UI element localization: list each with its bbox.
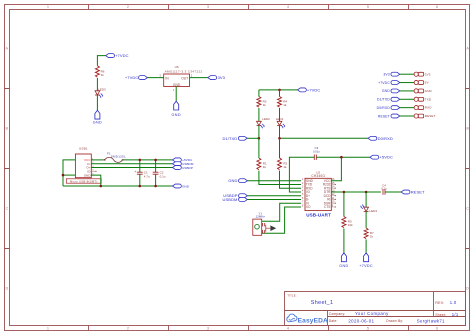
wire [247,137,259,139]
svg-text:6: 6 [436,5,438,9]
svg-text:2: 2 [127,327,129,331]
wire [247,198,301,200]
wire [63,174,75,176]
junction [139,159,142,162]
capacitor C1 [134,160,150,186]
resistor R2 [278,158,288,170]
svg-text:CTS: CTS [324,205,330,209]
LED LED3 [95,87,106,98]
svg-text:1k: 1k [283,103,287,107]
junction [278,137,281,140]
svg-text:Company:: Company: [329,312,346,316]
net flag D0/RXD [368,136,393,141]
svg-text:1k: 1k [283,165,287,169]
net flag 3V3 [208,75,226,80]
wire DTR/RESET [331,191,381,193]
wire [280,137,369,139]
svg-text:D0/RXD: D0/RXD [377,106,391,110]
net flag GND [382,89,400,93]
svg-text:GND: GND [382,89,390,93]
svg-text:3V3: 3V3 [383,73,389,77]
svg-text:LED1: LED1 [276,117,284,121]
wire [316,156,370,158]
power flag +7VDC (LED3 branch) [106,53,129,58]
svg-text:D0/RXD: D0/RXD [378,136,393,141]
svg-text:C3: C3 [315,146,319,150]
wire [385,191,401,193]
net flag D1/TXD [377,97,400,101]
svg-text:GND: GND [173,83,181,87]
svg-text:OUT: OUT [181,76,188,80]
IC U2 CH340G [302,170,336,210]
svg-text:REV:: REV: [435,301,444,305]
USB1 pin stubs and numbers [91,158,96,175]
wire XI [262,203,301,221]
svg-text:RXD: RXD [425,106,432,110]
resistor R1 [257,158,267,170]
wire (shell to gnd rail) [63,160,75,186]
svg-text:Micro USB-B(SMT): Micro USB-B(SMT) [70,179,97,183]
net flag USBDP [173,166,193,170]
svg-text:1.0: 1.0 [450,300,457,305]
svg-text:4.7u: 4.7u [144,174,150,178]
svg-text:4: 4 [287,327,289,331]
junction [278,89,281,92]
svg-text:10k: 10k [348,223,353,227]
svg-text:USB1: USB1 [79,146,88,150]
wire [96,78,98,91]
wire to TXD [259,171,301,185]
svg-text:3: 3 [207,5,209,9]
capacitor C2 [153,160,166,186]
ground GND [339,253,348,268]
wire [365,192,367,207]
svg-text:GND: GND [84,173,92,177]
junction [154,185,157,188]
fuse F1 SMD125L [104,151,126,162]
svg-text:0.01u: 0.01u [313,149,320,153]
connector USB1 [75,146,91,177]
svg-text:3: 3 [207,327,209,331]
svg-text:TXD: TXD [425,97,432,101]
svg-text:+5VDC: +5VDC [380,155,394,160]
junction [258,137,261,140]
net flag GND [228,178,247,183]
resistor R6 [95,66,104,77]
wire GND pin [91,175,101,186]
junction [365,191,368,194]
svg-text:SergHawk71: SergHawk71 [417,318,445,323]
pin 3V3 [414,72,431,76]
svg-text:1: 1 [47,327,49,331]
wire VCC [331,157,341,181]
svg-text:GND: GND [93,121,102,125]
wire D+ [91,167,172,169]
svg-text:+: + [134,170,136,174]
label Micro USB-B(SMT) [66,179,101,184]
capacitor C3 [313,146,320,160]
wire [258,90,260,97]
net flag 3V3 [383,72,399,76]
wire [400,73,414,75]
wire [279,108,281,121]
net flag +5VDC [370,155,393,160]
wire [343,229,345,253]
wire [175,87,177,102]
pin GND [414,89,432,93]
wire [96,95,98,110]
wire [247,180,301,182]
wire [247,195,301,197]
svg-text:0.1u: 0.1u [160,174,166,178]
svg-text:LED4: LED4 [370,209,378,213]
wire [190,77,208,79]
svg-text:+7VDC: +7VDC [125,75,139,80]
wire [400,82,414,84]
svg-text:Date:: Date: [329,319,338,323]
wire VCC to fuse [91,159,104,161]
svg-text:GND: GND [339,264,348,268]
svg-text:6: 6 [436,327,438,331]
resistor R7 [364,228,374,239]
svg-text:2: 2 [127,5,129,9]
wire XO [262,207,301,233]
net flag GND [173,184,190,188]
wire [97,56,105,66]
gnd rail wire [63,185,173,187]
junction [340,156,343,159]
ground arrow [270,225,276,231]
svg-text:LED2: LED2 [262,117,270,121]
svg-text:+7VDC: +7VDC [115,53,129,58]
svg-text:+7VDC: +7VDC [307,87,321,92]
power flag +7VDC [298,87,321,92]
wire [258,126,260,139]
net flag D1/TXD [222,136,247,141]
net flag D0/RXD [377,106,400,110]
svg-text:3V3: 3V3 [425,72,431,76]
svg-text:1k: 1k [101,73,105,77]
wire V3 [289,157,314,192]
resistor R3 [257,97,267,108]
wire D- [91,163,172,165]
svg-text:USB-UART: USB-UART [306,212,331,217]
svg-text:USBDM: USBDM [223,197,238,202]
wire 5V net [123,159,173,161]
wire [343,192,345,217]
svg-text:GND: GND [171,113,180,117]
svg-text:AMS1117-3.3 C347222: AMS1117-3.3 C347222 [165,69,203,73]
svg-text:Sheet:: Sheet: [435,313,446,317]
ground GND [93,110,102,124]
power port +7VDC [359,253,373,268]
svg-text:5: 5 [367,5,369,9]
LED LED4 [360,204,377,213]
svg-text:TITLE:: TITLE: [287,294,297,298]
wire [400,90,414,92]
svg-text:SMD125L: SMD125L [111,155,126,159]
wire [400,115,414,117]
crystal Y1 12MHz [253,211,271,235]
svg-text:1k: 1k [263,165,267,169]
pin TXD [414,97,432,101]
wire +7VDC rail [259,89,298,91]
regulator U6 AMS1117-3.3 [164,65,203,87]
svg-text:USBDP: USBDP [182,166,193,170]
svg-text:+7VDC: +7VDC [378,81,390,85]
junction [62,174,65,177]
wire [279,126,281,139]
wire [279,138,281,158]
wire [147,77,163,79]
wire [365,211,367,228]
svg-text:5V: 5V [425,81,429,85]
wire [365,240,367,253]
svg-text:RESET: RESET [411,189,425,194]
wire [258,108,260,121]
svg-text:D1/TXD: D1/TXD [222,136,237,141]
svg-text:RESET: RESET [425,114,436,118]
pin RESET [414,114,435,118]
net flag RESET [401,189,425,194]
svg-text:+7VDC: +7VDC [359,264,373,268]
junction [139,185,142,188]
LED LED1 [276,117,285,128]
svg-text:GND: GND [425,89,433,93]
svg-text:U6: U6 [175,65,179,69]
svg-text:Drawn By:: Drawn By: [386,319,403,323]
svg-text:GND: GND [228,178,237,183]
svg-text:Your Company: Your Company [355,311,389,316]
power flag +7VDC (regulator input) [125,75,148,80]
junction [343,191,346,194]
svg-text:4: 4 [287,5,289,9]
svg-text:XO: XO [306,205,311,209]
svg-text:3V3: 3V3 [218,75,226,80]
junction [100,185,103,188]
svg-text:GND: GND [182,184,190,188]
net flag USBDP [223,193,247,198]
LED LED2 [257,117,271,128]
svg-text:1: 1 [47,5,49,9]
wire [400,107,414,109]
net flag +5VDC [173,158,194,162]
svg-text:D1/TXD: D1/TXD [377,98,390,102]
net flag RESET [378,114,400,118]
svg-text:RESET: RESET [378,114,390,118]
wire [279,90,281,97]
wire to RXD [280,171,302,189]
pin RXD [414,106,432,110]
net flag USBDM [223,197,248,202]
ground GND [171,101,180,117]
net flag +7VDC [378,81,400,85]
resistor R4 [278,97,288,108]
wire [258,138,260,158]
svg-text:1/1: 1/1 [452,312,459,317]
resistor R5 [342,217,353,228]
pin 5V [414,80,429,84]
junction [154,159,157,162]
net flag USBDM [173,162,194,166]
svg-text:EasyEDA: EasyEDA [298,317,328,324]
wire [400,98,414,100]
capacitor C4 [381,183,387,194]
svg-text:5: 5 [367,327,369,331]
svg-text:12MHz: 12MHz [256,215,266,219]
svg-text:0.1u: 0.1u [381,187,387,191]
svg-text:CH340G: CH340G [311,174,325,178]
svg-text:1k: 1k [263,103,267,107]
svg-text:1k: 1k [370,234,374,238]
svg-text:Sheet_1: Sheet_1 [311,300,334,306]
svg-text:2020-06-01: 2020-06-01 [348,318,374,323]
